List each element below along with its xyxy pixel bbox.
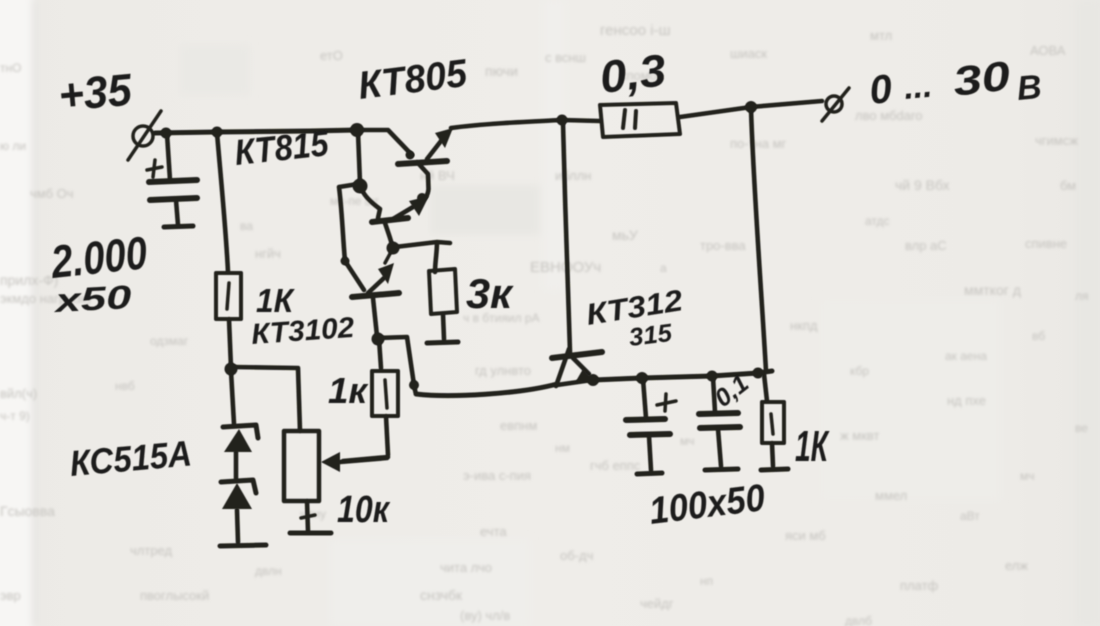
svg-text:яси мб: яси мб — [785, 528, 826, 543]
svg-text:эвр: эвр — [0, 588, 21, 603]
svg-text:АОВА: АОВА — [1030, 43, 1066, 58]
svg-text:атдс: атдс — [865, 214, 890, 228]
svg-text:нгйч: нгйч — [255, 246, 281, 261]
svg-text:чй 9 Вбх: чй 9 Вбх — [895, 177, 950, 193]
svg-text:+35: +35 — [56, 64, 134, 121]
svg-text:1К: 1К — [795, 422, 830, 471]
svg-text:315: 315 — [627, 319, 674, 352]
svg-text:чгимсж: чгимсж — [1035, 133, 1078, 148]
svg-text:с вснш: с вснш — [545, 50, 586, 65]
svg-text:члтред: члтред — [130, 543, 172, 558]
svg-text:нвб: нвб — [115, 379, 135, 393]
svg-text:В: В — [1015, 68, 1043, 108]
svg-text:мч: мч — [680, 434, 695, 448]
svg-text:етO: етO — [320, 48, 343, 63]
svg-text:1К: 1К — [256, 282, 296, 319]
svg-text:об-дч: об-дч — [560, 548, 593, 563]
svg-text:1к: 1к — [328, 370, 369, 411]
svg-text:3к: 3к — [466, 270, 514, 317]
svg-text:по-тна мг: по-тна мг — [730, 136, 787, 151]
svg-text:двлн: двлн — [255, 564, 282, 578]
svg-text:тнО: тнО — [0, 61, 21, 75]
svg-text:нд пхе: нд пхе — [947, 393, 986, 408]
svg-text:ммтког д: ммтког д — [964, 282, 1021, 298]
svg-text:0: 0 — [867, 67, 894, 113]
svg-text:вб: вб — [1032, 329, 1045, 343]
svg-text:нп: нп — [700, 574, 713, 588]
svg-text:ве: ве — [1075, 421, 1088, 435]
svg-text:ммел: ммел — [875, 488, 907, 503]
svg-text:нкпд: нкпд — [790, 318, 818, 333]
svg-text:одзмаг: одзмаг — [150, 334, 189, 348]
svg-text:х50: х50 — [52, 278, 133, 319]
svg-text:30: 30 — [950, 52, 1012, 105]
svg-text:(ву) чл/в: (ву) чл/в — [460, 608, 510, 623]
svg-text:чита лчо: чита лчо — [440, 560, 492, 575]
svg-text:генсоо і-ш: генсоо і-ш — [600, 22, 671, 39]
svg-text:ечта: ечта — [480, 524, 507, 539]
svg-text:ибллн: ибллн — [555, 168, 591, 183]
svg-text:ва: ва — [240, 219, 253, 233]
svg-text:чмб Оч: чмб Оч — [30, 186, 74, 201]
svg-text:двлб: двлб — [845, 614, 872, 626]
svg-text:снзчбк: снзчбк — [420, 587, 463, 603]
svg-text:прилх-Ф): прилх-Ф) — [0, 272, 58, 288]
svg-text:мч: мч — [1020, 469, 1035, 483]
svg-text:евпнм: евпнм — [500, 418, 537, 433]
svg-text:аВт: аВт — [960, 509, 980, 523]
svg-text:бм: бм — [1060, 178, 1076, 193]
svg-text:мтл: мтл — [870, 28, 892, 43]
svg-text:а: а — [660, 261, 667, 275]
svg-text:0,3: 0,3 — [597, 44, 669, 103]
svg-text:тро-вва: тро-вва — [700, 238, 746, 253]
svg-text:нм: нм — [555, 441, 570, 455]
svg-text:пвоглысокй: пвоглысокй — [140, 588, 209, 603]
svg-text:шиаск: шиаск — [730, 46, 767, 61]
svg-text:ч-т 9): ч-т 9) — [0, 409, 30, 423]
svg-text:мьУ: мьУ — [612, 227, 638, 243]
svg-text:гчб еппс: гчб еппс — [590, 458, 641, 473]
svg-text:влр аС: влр аС — [905, 238, 947, 253]
svg-text:кбр: кбр — [850, 364, 869, 378]
svg-text:гд улнвто: гд улнвто — [475, 363, 531, 378]
svg-text:ж мквт: ж мквт — [840, 428, 880, 443]
svg-text:платф: платф — [900, 578, 939, 593]
svg-text:10к: 10к — [337, 489, 390, 531]
svg-text:ак аена: ак аена — [945, 349, 987, 363]
svg-text:спивне: спивне — [1025, 236, 1067, 251]
svg-text:...: ... — [902, 67, 933, 107]
svg-text:чейдг: чейдг — [640, 596, 674, 611]
svg-text:елж: елж — [1005, 558, 1028, 573]
svg-text:пючи: пючи — [485, 63, 518, 79]
svg-text:ля: ля — [1075, 289, 1089, 303]
svg-text:ю ли: ю ли — [0, 139, 26, 153]
svg-text:вйл(ч): вйл(ч) — [0, 386, 37, 401]
svg-text:Гсыовва: Гсыовва — [0, 503, 55, 519]
svg-text:э-ива с-пия: э-ива с-пия — [463, 468, 531, 483]
